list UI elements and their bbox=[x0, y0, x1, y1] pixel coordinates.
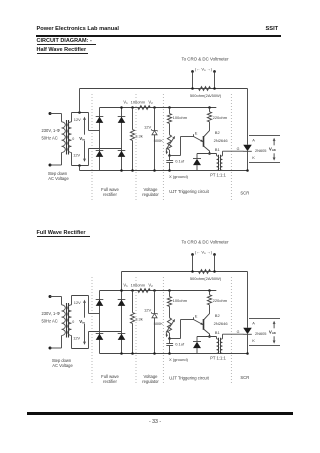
wire bottom rail bbox=[100, 353, 248, 355]
svg-text:B1: B1 bbox=[215, 147, 221, 152]
svg-text:2N605: 2N605 bbox=[255, 331, 266, 336]
svg-text:12V: 12V bbox=[144, 125, 151, 130]
node V1 bbox=[131, 289, 134, 292]
svg-text:G: G bbox=[237, 330, 240, 334]
wire B1 junction bbox=[197, 154, 217, 156]
svg-text:2N2646: 2N2646 bbox=[214, 138, 229, 143]
svg-text:(← Vo →): (← Vo →) bbox=[195, 66, 213, 72]
half wave rectifier circuit bbox=[42, 56, 281, 202]
wire emitter network bbox=[170, 320, 194, 339]
node pot-capacitor junction bbox=[168, 154, 171, 157]
label voltage regulator section bbox=[142, 187, 159, 197]
label PT 1:1:1 bbox=[210, 356, 226, 361]
label 3.3k bbox=[135, 133, 143, 138]
bridge diode D1 bbox=[96, 117, 104, 123]
diode pulse bbox=[193, 337, 201, 354]
pulse transformer PT bbox=[217, 151, 244, 171]
diode pulse bbox=[193, 154, 201, 171]
svg-text:B2: B2 bbox=[215, 130, 221, 135]
label ground bbox=[169, 357, 189, 362]
capacitor 0.1uf bbox=[166, 339, 173, 355]
label K bbox=[252, 338, 255, 343]
label 0.1uf bbox=[175, 342, 185, 347]
label secondary 12V bottom bbox=[73, 153, 80, 158]
svg-text:12V: 12V bbox=[73, 336, 80, 341]
svg-text:500ohm(2A/50W): 500ohm(2A/50W) bbox=[190, 276, 222, 281]
svg-text:V1: V1 bbox=[123, 99, 128, 105]
AC input terminal bottom bbox=[49, 164, 62, 167]
label K bbox=[252, 155, 255, 160]
node pot-capacitor junction bbox=[168, 337, 171, 340]
heading Full Wave Rectifier bbox=[37, 230, 86, 236]
label SCR section bbox=[240, 191, 249, 196]
resistor 3.3k bbox=[130, 291, 134, 355]
zener diode 12V bbox=[151, 291, 157, 355]
node V2 bbox=[153, 106, 156, 109]
section separator 1 (dashed) bbox=[91, 277, 93, 385]
potentiometer 500K bbox=[167, 318, 171, 339]
UJT 2N2646 bbox=[194, 124, 210, 154]
SCR bbox=[243, 89, 252, 172]
svg-text:X (ground): X (ground) bbox=[169, 357, 189, 362]
svg-text:2N2646: 2N2646 bbox=[214, 321, 229, 326]
label 500K bbox=[154, 138, 164, 143]
resistor 100ohm bbox=[167, 291, 171, 318]
label UJT triggering section bbox=[169, 376, 209, 381]
svg-text:SCR: SCR bbox=[240, 191, 249, 196]
svg-text:regulator: regulator bbox=[142, 192, 159, 197]
potentiometer arrow bbox=[166, 320, 175, 337]
Vak arrow up bbox=[273, 139, 275, 146]
wire top load rail bbox=[80, 88, 248, 90]
svg-text:500K: 500K bbox=[154, 138, 164, 143]
wire secondary top to bridge bbox=[72, 296, 100, 314]
heading CIRCUIT DIAGRAM bbox=[37, 38, 92, 44]
label To CRO & DC Voltmeter bbox=[181, 56, 229, 61]
svg-text:0: 0 bbox=[72, 320, 74, 324]
bridge diode D2 bbox=[118, 117, 126, 123]
capacitor 0.1uf bbox=[166, 156, 173, 172]
svg-text:B2: B2 bbox=[215, 313, 221, 318]
label E bbox=[195, 130, 198, 135]
label 220ohm bbox=[213, 115, 228, 120]
label PT 1:1:1 bbox=[210, 173, 226, 178]
label Vo bbox=[195, 249, 213, 255]
label A bbox=[252, 137, 255, 142]
CRO terminal right bbox=[213, 70, 216, 90]
svg-text:X (ground): X (ground) bbox=[169, 174, 189, 179]
wire top load rail bbox=[122, 271, 248, 273]
wire bottom rail bbox=[80, 170, 248, 172]
section separator 3 (dashed) bbox=[162, 277, 164, 385]
svg-text:VAK: VAK bbox=[269, 329, 277, 335]
CRO terminal right bbox=[213, 253, 216, 273]
label 220ohm bbox=[213, 298, 228, 303]
heading Half Wave Rectifier bbox=[37, 47, 87, 53]
svg-text:0: 0 bbox=[72, 137, 74, 141]
header title left bbox=[37, 26, 120, 32]
label 500ohm load bbox=[190, 276, 222, 281]
svg-text:(← Vo →): (← Vo →) bbox=[195, 249, 213, 255]
label 100ohm bbox=[173, 115, 188, 120]
node R 100ohm top bbox=[168, 106, 171, 109]
bridge diode D3 bbox=[96, 334, 104, 340]
svg-text:E: E bbox=[195, 130, 198, 135]
resistor 3.3k bbox=[130, 108, 134, 172]
svg-text:A: A bbox=[252, 320, 255, 325]
wire B1 junction bbox=[197, 337, 217, 339]
potentiometer arrow bbox=[166, 137, 175, 154]
label 2N2646 bbox=[214, 321, 229, 326]
section separator 4 (dashed) bbox=[230, 277, 232, 385]
transformer core bbox=[67, 303, 69, 338]
label AC source 230V 1-phase 50Hz bbox=[42, 311, 61, 324]
svg-text:220ohm: 220ohm bbox=[213, 115, 228, 120]
node B2 rail bbox=[208, 289, 211, 292]
svg-text:230V, 1-Φ: 230V, 1-Φ bbox=[42, 311, 61, 316]
svg-text:230V, 1-Φ: 230V, 1-Φ bbox=[42, 128, 61, 133]
potentiometer 500K bbox=[167, 135, 171, 156]
svg-text:A: A bbox=[252, 137, 255, 142]
svg-text:AC Voltage: AC Voltage bbox=[52, 363, 73, 368]
section separator 4 (dashed) bbox=[230, 94, 232, 202]
svg-text:12V: 12V bbox=[73, 153, 80, 158]
bridge diode D1 bbox=[96, 300, 104, 306]
Vak arrow down bbox=[273, 153, 275, 160]
svg-text:3.3k: 3.3k bbox=[135, 133, 143, 138]
node bridge bottom-left bbox=[120, 169, 123, 172]
label 2N2646 bbox=[214, 138, 229, 143]
label 2N605 bbox=[255, 331, 266, 336]
wire tap secondary top to load rail bbox=[78, 89, 81, 114]
label Vak bbox=[269, 146, 277, 152]
label B2 bbox=[215, 313, 221, 318]
AC input terminal top bbox=[49, 295, 62, 298]
label 500ohm load bbox=[190, 93, 222, 98]
wire tap secondary bottom to bottom rail bbox=[78, 164, 81, 170]
wire secondary bottom to bridge bbox=[72, 149, 122, 166]
label To CRO & DC Voltmeter bbox=[181, 239, 229, 244]
label SCR section bbox=[240, 375, 249, 380]
label secondary center tap 0 bbox=[72, 320, 74, 324]
label E bbox=[195, 313, 198, 318]
node B2 rail bbox=[208, 106, 211, 109]
svg-text:12V: 12V bbox=[144, 308, 151, 313]
resistor 100ohm bbox=[167, 108, 171, 135]
Vin measurement arrow bbox=[79, 118, 89, 162]
section separator 1 (dashed) bbox=[91, 94, 93, 202]
svg-text:Vin: Vin bbox=[79, 319, 85, 325]
Vin measurement arrow bbox=[79, 301, 89, 345]
node V2 bbox=[153, 289, 156, 292]
svg-text:E: E bbox=[195, 313, 198, 318]
wire riser bridge+ to load rail bbox=[121, 272, 123, 291]
AC input terminal top bbox=[49, 112, 62, 115]
label B2 bbox=[215, 130, 221, 135]
resistor 220ohm bbox=[207, 291, 211, 308]
svg-text:K: K bbox=[252, 155, 255, 160]
resistor 100ohm series bbox=[138, 106, 150, 110]
label 100ohm bbox=[173, 298, 188, 303]
label voltage regulator section bbox=[142, 374, 159, 384]
label Vo bbox=[195, 66, 213, 72]
label 2N605 bbox=[255, 148, 266, 153]
header title right SSIT bbox=[266, 26, 279, 32]
label Vak bbox=[269, 329, 277, 335]
label secondary 12V bottom bbox=[73, 336, 80, 341]
svg-text:rectifier: rectifier bbox=[103, 192, 117, 197]
transformer primary winding bbox=[62, 297, 66, 349]
pulse transformer PT bbox=[217, 334, 244, 354]
transformer secondary winding bbox=[68, 296, 72, 349]
svg-text:50Hz AC: 50Hz AC bbox=[42, 136, 58, 141]
svg-text:12V: 12V bbox=[74, 300, 81, 305]
label 3.3k bbox=[135, 316, 143, 321]
svg-text:SCR: SCR bbox=[240, 375, 249, 380]
svg-text:0.1uf: 0.1uf bbox=[175, 159, 185, 164]
svg-text:G: G bbox=[237, 147, 240, 151]
svg-text:0.1uf: 0.1uf bbox=[175, 342, 185, 347]
bridge diode D4 bbox=[118, 334, 126, 340]
label full wave rectifier section bbox=[101, 374, 119, 384]
node B1 junction bbox=[208, 335, 211, 338]
node R 100ohm top bbox=[168, 289, 171, 292]
CRO terminal left bbox=[191, 70, 194, 90]
svg-text:50Hz AC: 50Hz AC bbox=[42, 319, 58, 324]
resistor 220ohm bbox=[207, 108, 211, 125]
svg-text:UJT Triggering circuit: UJT Triggering circuit bbox=[169, 189, 209, 194]
section separator 2 (dashed) bbox=[135, 277, 137, 385]
footer rule bbox=[27, 412, 293, 415]
svg-text:VAK: VAK bbox=[269, 146, 277, 152]
bridge left branch bbox=[99, 108, 101, 171]
zener diode 12V bbox=[151, 108, 157, 172]
node bridge bottom-left bbox=[120, 352, 123, 355]
label step down transformer bbox=[48, 171, 70, 181]
bridge left branch bbox=[99, 291, 101, 354]
label B1 bbox=[215, 147, 221, 152]
label zener 12V bbox=[144, 308, 151, 313]
svg-text:100ohm: 100ohm bbox=[173, 115, 188, 120]
svg-text:PT 1:1:1: PT 1:1:1 bbox=[210, 356, 226, 361]
node bridge top-right bbox=[120, 106, 123, 109]
wire emitter network bbox=[170, 137, 194, 156]
header rule bbox=[36, 35, 281, 38]
svg-text:V2: V2 bbox=[148, 99, 153, 105]
Vak arrow up bbox=[273, 322, 275, 329]
bridge right branch bbox=[121, 108, 123, 171]
bridge diode D4 bbox=[118, 151, 126, 157]
svg-text:220ohm: 220ohm bbox=[213, 298, 228, 303]
UJT 2N2646 bbox=[194, 307, 210, 337]
wire secondary top to bridge bbox=[72, 113, 100, 131]
transformer secondary winding bbox=[68, 113, 72, 166]
label 500K bbox=[154, 321, 164, 326]
label V1 100ohm V2 bbox=[123, 99, 153, 105]
svg-text:100ohm: 100ohm bbox=[173, 298, 188, 303]
svg-text:V1: V1 bbox=[123, 282, 128, 288]
svg-text:B1: B1 bbox=[215, 330, 221, 335]
transformer primary winding bbox=[62, 114, 66, 166]
label secondary center tap 0 bbox=[72, 137, 74, 141]
transformer core bbox=[67, 120, 69, 155]
Vak measurement bracket bbox=[249, 319, 280, 346]
bridge diode D2 bbox=[118, 300, 126, 306]
node bridge top-right bbox=[120, 289, 123, 292]
svg-text:PT 1:1:1: PT 1:1:1 bbox=[210, 173, 226, 178]
svg-text:3.3k: 3.3k bbox=[135, 316, 143, 321]
label G bbox=[237, 330, 240, 334]
wire secondary bottom to bridge bbox=[72, 332, 122, 349]
svg-text:rectifier: rectifier bbox=[103, 379, 117, 384]
label V1 100ohm V2 bbox=[123, 282, 153, 288]
CRO terminal left bbox=[191, 253, 194, 273]
label secondary 12V top bbox=[74, 117, 81, 122]
label AC source 230V 1-phase 50Hz bbox=[42, 128, 61, 141]
label A bbox=[252, 320, 255, 325]
label UJT triggering section bbox=[169, 189, 209, 194]
SCR bbox=[243, 272, 252, 355]
node V1 bbox=[131, 106, 134, 109]
bridge right branch bbox=[121, 291, 123, 354]
svg-text:AC Voltage: AC Voltage bbox=[48, 176, 69, 181]
resistor 100ohm series bbox=[138, 289, 150, 293]
svg-text:100ohm: 100ohm bbox=[131, 282, 146, 287]
label G bbox=[237, 147, 240, 151]
label 0.1uf bbox=[175, 159, 185, 164]
svg-text:UJT Triggering circuit: UJT Triggering circuit bbox=[169, 376, 209, 381]
svg-text:K: K bbox=[252, 338, 255, 343]
wire bridge / dc+ rail bbox=[100, 107, 217, 109]
svg-text:100ohm: 100ohm bbox=[131, 99, 146, 104]
svg-text:500K: 500K bbox=[154, 321, 164, 326]
label B1 bbox=[215, 330, 221, 335]
label step down transformer bbox=[52, 358, 74, 368]
wire bridge / dc+ rail bbox=[100, 290, 217, 292]
bridge diode D3 bbox=[96, 151, 104, 157]
section separator 2 (dashed) bbox=[135, 94, 137, 202]
svg-text:V2: V2 bbox=[148, 282, 153, 288]
label ground bbox=[169, 174, 189, 179]
svg-text:12V: 12V bbox=[74, 117, 81, 122]
label zener 12V bbox=[144, 125, 151, 130]
load resistor 500ohm bbox=[199, 87, 211, 91]
full wave rectifier circuit bbox=[42, 239, 281, 385]
label full wave rectifier section bbox=[101, 187, 119, 197]
svg-text:2N605: 2N605 bbox=[255, 148, 266, 153]
load resistor 500ohm bbox=[199, 270, 211, 274]
svg-text:500ohm(2A/50W): 500ohm(2A/50W) bbox=[190, 93, 222, 98]
svg-text:To CRO & DC Voltmeter: To CRO & DC Voltmeter bbox=[181, 239, 229, 244]
footer page number bbox=[149, 419, 161, 425]
section separator 3 (dashed) bbox=[162, 94, 164, 202]
svg-text:To CRO & DC Voltmeter: To CRO & DC Voltmeter bbox=[181, 56, 229, 61]
svg-text:Vin: Vin bbox=[79, 136, 85, 142]
svg-text:regulator: regulator bbox=[142, 379, 159, 384]
Vak arrow down bbox=[273, 336, 275, 343]
AC input terminal bottom bbox=[49, 347, 62, 350]
Vak measurement bracket bbox=[249, 136, 280, 163]
label secondary 12V top bbox=[74, 300, 81, 305]
node B1 junction bbox=[208, 152, 211, 155]
